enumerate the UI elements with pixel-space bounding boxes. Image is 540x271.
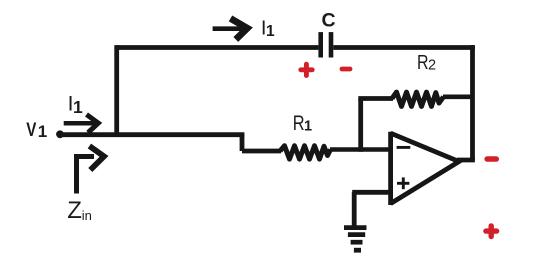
wire R2 right horizontal bbox=[443, 95, 474, 100]
svg-text:1: 1 bbox=[73, 97, 83, 117]
svg-text:1: 1 bbox=[38, 122, 47, 141]
wire top horizontal left segment bbox=[117, 45, 319, 50]
current arrow I1 left bbox=[64, 115, 99, 133]
wire top horizontal right segment bbox=[333, 45, 475, 50]
wire R2 left horizontal bbox=[358, 96, 393, 101]
label V1 bbox=[26, 118, 36, 140]
capacitor C right plate bbox=[329, 32, 334, 57]
resistor R1 bbox=[280, 146, 331, 159]
ground bbox=[344, 228, 367, 251]
red minus (output negative terminal) bbox=[487, 156, 496, 162]
wire op-amp output bbox=[457, 158, 475, 163]
wire left vertical bbox=[114, 45, 119, 135]
wire junction vertical (R2 branch to inverting input) bbox=[358, 99, 363, 152]
wire R1 to op-amp bbox=[330, 147, 392, 152]
svg-text:V: V bbox=[26, 118, 36, 140]
svg-text:R: R bbox=[417, 50, 429, 73]
svg-text:Z: Z bbox=[67, 197, 82, 224]
red minus (capacitor right polarity) bbox=[342, 67, 350, 72]
wire main input horizontal bbox=[60, 132, 244, 137]
wire step down bbox=[240, 135, 245, 151]
node dot at V1 bbox=[56, 130, 64, 138]
impedance arrow Zin bbox=[77, 146, 105, 194]
resistor R2 bbox=[392, 92, 444, 106]
label R2 bbox=[417, 50, 429, 73]
svg-text:R: R bbox=[293, 111, 305, 134]
svg-text:C: C bbox=[322, 10, 336, 32]
wire right vertical bbox=[470, 45, 475, 160]
svg-text:in: in bbox=[82, 208, 92, 223]
op-amp non-inverting input marker bbox=[397, 177, 409, 189]
wire to R1 bbox=[242, 149, 281, 154]
wire ground vertical bbox=[352, 192, 357, 226]
svg-text:1: 1 bbox=[266, 23, 275, 40]
red plus (output positive terminal) bbox=[486, 226, 497, 237]
svg-text:2: 2 bbox=[428, 58, 436, 74]
capacitor C left plate bbox=[318, 32, 323, 57]
op-amp U1 bbox=[391, 132, 459, 205]
svg-text:1: 1 bbox=[304, 119, 312, 135]
op-amp inverting input marker bbox=[397, 146, 411, 149]
current arrow I1 top bbox=[213, 18, 248, 39]
red plus (capacitor left polarity) bbox=[301, 64, 312, 75]
wire non-inverting input horizontal bbox=[352, 190, 392, 195]
label R1 bbox=[293, 111, 305, 134]
